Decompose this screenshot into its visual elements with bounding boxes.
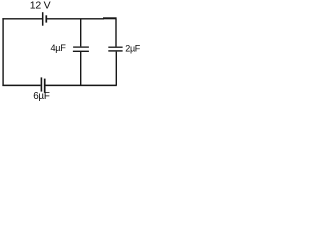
svg-text:4µF: 4µF xyxy=(51,43,67,53)
svg-text:12 V: 12 V xyxy=(30,0,51,12)
svg-text:2µF: 2µF xyxy=(125,44,140,54)
svg-text:6µF: 6µF xyxy=(33,91,50,102)
